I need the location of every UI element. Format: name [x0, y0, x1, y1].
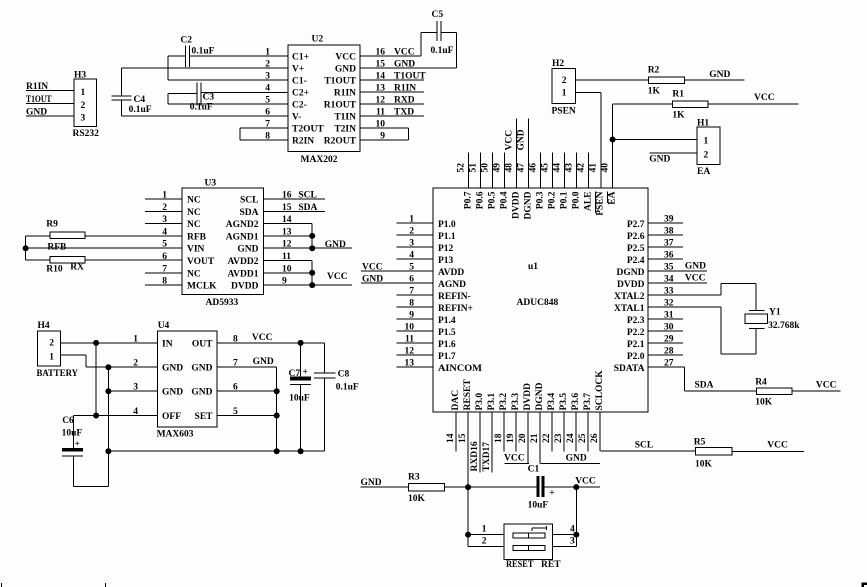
svg-text:R10: R10	[46, 265, 63, 275]
svg-text:T1IN: T1IN	[334, 113, 356, 123]
svg-text:14: 14	[376, 72, 386, 82]
svg-text:P1.5: P1.5	[438, 328, 456, 338]
svg-text:GND: GND	[162, 364, 183, 374]
svg-text:10uF: 10uF	[289, 394, 310, 404]
svg-text:R4: R4	[755, 378, 767, 388]
svg-text:9: 9	[380, 132, 385, 142]
svg-text:51: 51	[469, 163, 479, 173]
svg-text:DAC: DAC	[451, 390, 461, 411]
svg-text:SDA: SDA	[298, 203, 317, 213]
svg-text:GND: GND	[361, 478, 382, 488]
svg-text:18: 18	[494, 433, 504, 443]
svg-text:VCC: VCC	[362, 263, 383, 273]
svg-text:AGND2: AGND2	[226, 220, 259, 230]
svg-text:4: 4	[570, 525, 575, 535]
svg-text:GND: GND	[325, 240, 346, 250]
svg-text:10K: 10K	[755, 398, 773, 408]
svg-text:TXD17: TXD17	[482, 442, 492, 472]
svg-text:RS232: RS232	[73, 129, 100, 139]
svg-text:14: 14	[446, 433, 456, 443]
svg-text:NC: NC	[187, 220, 201, 230]
svg-text:R5: R5	[694, 438, 706, 448]
svg-text:VCC: VCC	[816, 381, 837, 391]
svg-text:1: 1	[49, 353, 54, 363]
svg-text:P0.6: P0.6	[476, 191, 486, 209]
svg-text:P1.0: P1.0	[438, 220, 456, 230]
svg-text:R1IN: R1IN	[394, 84, 416, 94]
svg-text:15: 15	[458, 433, 468, 443]
svg-text:DGND: DGND	[535, 382, 545, 410]
svg-text:P3.5: P3.5	[559, 393, 569, 411]
svg-text:1K: 1K	[648, 87, 661, 97]
svg-text:VCC: VCC	[767, 441, 788, 451]
svg-text:0.1uF: 0.1uF	[431, 46, 454, 56]
svg-text:U2: U2	[312, 35, 324, 45]
svg-text:47: 47	[517, 163, 527, 173]
svg-text:SET: SET	[195, 412, 214, 422]
svg-text:41: 41	[589, 163, 599, 173]
svg-text:10: 10	[376, 120, 386, 130]
svg-text:SDATA: SDATA	[614, 364, 645, 374]
svg-text:23: 23	[554, 433, 564, 443]
svg-text:VCC: VCC	[575, 477, 596, 487]
svg-text:XTAL1: XTAL1	[614, 304, 645, 314]
svg-text:25: 25	[578, 433, 588, 443]
svg-text:VCC: VCC	[754, 93, 775, 103]
svg-text:R1IN: R1IN	[26, 82, 48, 92]
svg-text:P0.4: P0.4	[500, 191, 510, 209]
svg-text:RESET: RESET	[506, 560, 534, 570]
svg-text:42: 42	[577, 163, 587, 173]
svg-text:RESET: RESET	[463, 379, 473, 411]
svg-text:43: 43	[565, 163, 575, 173]
svg-text:VCC: VCC	[327, 272, 348, 282]
svg-text:V-: V-	[292, 113, 301, 123]
svg-text:40: 40	[601, 163, 611, 173]
svg-text:52: 52	[457, 163, 467, 173]
svg-text:P13: P13	[438, 256, 454, 266]
svg-text:SDA: SDA	[695, 381, 714, 391]
svg-text:19: 19	[506, 433, 516, 443]
svg-text:DVDD: DVDD	[231, 282, 259, 292]
svg-text:P3.4: P3.4	[547, 393, 557, 411]
svg-text:P2.7: P2.7	[627, 220, 645, 230]
svg-text:AD5933: AD5933	[206, 298, 239, 308]
svg-text:2: 2	[482, 536, 487, 546]
svg-text:AVDD: AVDD	[438, 268, 464, 278]
svg-text:T1OUT: T1OUT	[324, 77, 356, 87]
svg-text:21: 21	[530, 433, 540, 443]
svg-text:0.1uF: 0.1uF	[129, 105, 152, 115]
svg-text:SCL: SCL	[240, 196, 258, 206]
svg-text:R3: R3	[408, 473, 420, 483]
svg-text:2: 2	[704, 151, 709, 161]
svg-text:P0.5: P0.5	[488, 191, 498, 209]
svg-text:11: 11	[376, 108, 385, 118]
svg-text:R9: R9	[46, 220, 58, 230]
svg-text:4: 4	[265, 84, 270, 94]
svg-text:P0.3: P0.3	[536, 191, 546, 209]
svg-text:2: 2	[562, 76, 567, 86]
svg-text:GND: GND	[191, 388, 212, 398]
svg-text:NC: NC	[187, 208, 201, 218]
svg-text:VCC: VCC	[504, 454, 525, 464]
svg-text:6: 6	[162, 252, 167, 262]
svg-text:32.768k: 32.768k	[768, 321, 800, 331]
svg-text:48: 48	[505, 163, 515, 173]
svg-text:P0.1: P0.1	[560, 191, 570, 209]
svg-text:VCC: VCC	[685, 274, 706, 284]
svg-text:EA: EA	[697, 167, 710, 177]
svg-text:OUT: OUT	[192, 339, 213, 349]
svg-text:NC: NC	[187, 196, 201, 206]
svg-text:R1OUT: R1OUT	[324, 101, 357, 111]
svg-text:RFB: RFB	[47, 243, 67, 253]
svg-text:P2.2: P2.2	[627, 328, 645, 338]
svg-text:P2.3: P2.3	[627, 316, 645, 326]
svg-text:+: +	[303, 368, 308, 378]
svg-text:1: 1	[704, 137, 709, 147]
svg-text:GND: GND	[709, 70, 730, 80]
svg-text:T2IN: T2IN	[334, 125, 356, 135]
svg-text:VCC: VCC	[394, 48, 415, 58]
svg-text:H4: H4	[38, 321, 50, 331]
svg-text:3: 3	[81, 114, 86, 124]
svg-text:1K: 1K	[672, 111, 685, 121]
svg-text:P1.1: P1.1	[438, 232, 456, 242]
svg-text:DGND: DGND	[617, 268, 645, 278]
svg-text:AGND1: AGND1	[226, 232, 259, 242]
svg-text:GND: GND	[191, 364, 212, 374]
svg-text:C2: C2	[180, 36, 192, 46]
svg-text:3: 3	[570, 536, 575, 546]
svg-text:VOUT: VOUT	[187, 257, 215, 267]
svg-text:R2: R2	[648, 66, 660, 76]
svg-text:GND: GND	[566, 454, 587, 464]
svg-text:VCC: VCC	[252, 333, 273, 343]
svg-text:DVDD: DVDD	[512, 191, 522, 219]
svg-text:RX: RX	[70, 263, 84, 273]
svg-text:REFIN+: REFIN+	[438, 304, 473, 314]
svg-text:P1.4: P1.4	[438, 316, 456, 326]
svg-text:P3.3: P3.3	[511, 393, 521, 411]
svg-text:P12: P12	[438, 244, 454, 254]
svg-text:U4: U4	[158, 321, 170, 331]
svg-text:20: 20	[518, 433, 528, 443]
svg-text:EA: EA	[608, 191, 618, 204]
svg-text:Y1: Y1	[769, 308, 781, 318]
svg-text:GND: GND	[362, 275, 383, 285]
svg-text:MCLK: MCLK	[187, 282, 217, 292]
svg-text:1: 1	[562, 89, 567, 99]
svg-text:MAX603: MAX603	[157, 429, 194, 439]
svg-text:SDA: SDA	[239, 208, 258, 218]
svg-text:2: 2	[49, 339, 54, 349]
svg-text:H3: H3	[74, 71, 86, 81]
svg-text:R1IN: R1IN	[334, 89, 356, 99]
svg-text:VCC: VCC	[505, 130, 515, 151]
svg-text:SCL: SCL	[635, 441, 653, 451]
svg-text:V+: V+	[292, 65, 304, 75]
svg-text:ALE: ALE	[584, 192, 594, 212]
svg-text:P2.0: P2.0	[627, 352, 645, 362]
svg-text:P3.6: P3.6	[571, 393, 581, 411]
svg-text:P1.7: P1.7	[438, 352, 456, 362]
svg-text:1: 1	[482, 525, 487, 535]
svg-text:10uF: 10uF	[528, 501, 549, 511]
svg-text:AINCOM: AINCOM	[438, 364, 482, 374]
svg-text:P3.2: P3.2	[499, 393, 509, 411]
svg-text:ADUC848: ADUC848	[517, 298, 559, 308]
svg-text:C1: C1	[528, 465, 540, 475]
svg-text:RFB: RFB	[187, 232, 207, 242]
svg-text:GND: GND	[237, 245, 258, 255]
svg-text:VIN: VIN	[187, 245, 205, 255]
svg-text:PSEN: PSEN	[552, 107, 576, 117]
svg-text:13: 13	[376, 84, 386, 94]
svg-text:C5: C5	[432, 10, 444, 20]
svg-text:49: 49	[493, 163, 503, 173]
svg-text:SCL: SCL	[298, 191, 316, 201]
svg-text:AVDD1: AVDD1	[228, 269, 259, 279]
svg-text:IN: IN	[162, 339, 173, 349]
svg-text:P2.5: P2.5	[627, 244, 645, 254]
svg-text:U3: U3	[205, 179, 217, 189]
svg-text:1: 1	[133, 334, 138, 344]
svg-text:C1+: C1+	[292, 53, 309, 63]
svg-text:RXD: RXD	[394, 96, 415, 106]
svg-text:GND: GND	[394, 60, 415, 70]
svg-text:C7: C7	[289, 369, 301, 379]
svg-text:OFF: OFF	[162, 412, 181, 422]
svg-text:46: 46	[529, 163, 539, 173]
svg-text:+: +	[75, 440, 80, 450]
svg-text:P2.4: P2.4	[627, 256, 645, 266]
svg-text:VCC: VCC	[335, 53, 356, 63]
svg-text:u1: u1	[528, 262, 538, 272]
svg-text:P0.0: P0.0	[572, 191, 582, 209]
svg-text:P3.7: P3.7	[583, 393, 593, 411]
svg-text:NC: NC	[187, 269, 201, 279]
svg-text:C2-: C2-	[292, 101, 307, 111]
svg-text:GND: GND	[162, 388, 183, 398]
svg-text:GND: GND	[649, 155, 670, 165]
svg-text:15: 15	[376, 60, 386, 70]
svg-text:XTAL2: XTAL2	[614, 292, 645, 302]
svg-text:22: 22	[542, 433, 552, 443]
svg-text:R1: R1	[672, 90, 684, 100]
svg-text:R2OUT: R2OUT	[324, 137, 357, 147]
svg-text:GND: GND	[253, 357, 274, 367]
svg-text:0.1uF: 0.1uF	[336, 383, 359, 393]
svg-text:1: 1	[81, 88, 86, 98]
svg-text:PSEN: PSEN	[596, 191, 606, 215]
svg-text:P1.6: P1.6	[438, 340, 456, 350]
svg-text:T1OUT: T1OUT	[26, 95, 52, 105]
svg-text:RET: RET	[541, 560, 561, 570]
svg-text:12: 12	[376, 96, 386, 106]
svg-text:MAX202: MAX202	[301, 155, 338, 165]
svg-text:C8: C8	[338, 370, 350, 380]
svg-text:P3.0: P3.0	[475, 393, 485, 411]
svg-text:C1-: C1-	[292, 77, 307, 87]
svg-text:44: 44	[553, 163, 563, 173]
svg-text:P2.1: P2.1	[627, 340, 645, 350]
svg-text:AVDD2: AVDD2	[228, 257, 259, 267]
svg-text:DVDD: DVDD	[523, 383, 533, 411]
svg-text:R2IN: R2IN	[292, 137, 314, 147]
svg-text:T2OUT: T2OUT	[292, 125, 324, 135]
svg-text:10K: 10K	[408, 494, 426, 504]
svg-text:GND: GND	[685, 262, 706, 272]
svg-text:H2: H2	[552, 59, 564, 69]
svg-text:1: 1	[265, 48, 270, 58]
svg-text:2: 2	[81, 101, 86, 111]
svg-text:P0.2: P0.2	[548, 191, 558, 209]
svg-text:GND: GND	[335, 65, 356, 75]
svg-text:GND: GND	[517, 129, 527, 150]
svg-text:GND: GND	[26, 108, 47, 118]
svg-text:24: 24	[566, 433, 576, 443]
svg-text:DVDD: DVDD	[617, 280, 645, 290]
svg-text:P2.6: P2.6	[627, 232, 645, 242]
svg-text:REFIN-: REFIN-	[438, 292, 471, 302]
svg-text:H1: H1	[697, 119, 709, 129]
svg-text:SCLOCK: SCLOCK	[595, 370, 605, 411]
svg-text:10uF: 10uF	[62, 429, 83, 439]
svg-text:50: 50	[481, 163, 491, 173]
svg-text:+: +	[549, 489, 554, 499]
svg-text:C4: C4	[134, 95, 146, 105]
svg-text:BATTERY: BATTERY	[37, 369, 79, 379]
svg-text:C3: C3	[203, 93, 215, 103]
svg-text:TXD: TXD	[394, 108, 414, 118]
svg-text:P3.1: P3.1	[487, 393, 497, 411]
svg-text:10K: 10K	[695, 460, 713, 470]
svg-text:26: 26	[590, 433, 600, 443]
svg-text:AGND: AGND	[438, 280, 466, 290]
svg-text:P0.7: P0.7	[464, 191, 474, 209]
svg-text:0.1uF: 0.1uF	[192, 47, 215, 57]
svg-text:C2+: C2+	[292, 89, 309, 99]
svg-text:T1OUT: T1OUT	[394, 72, 426, 82]
svg-text:DGND: DGND	[524, 191, 534, 219]
svg-text:C6: C6	[62, 416, 74, 426]
svg-text:45: 45	[541, 163, 551, 173]
svg-text:16: 16	[376, 48, 386, 58]
svg-text:RXD16: RXD16	[470, 441, 480, 471]
